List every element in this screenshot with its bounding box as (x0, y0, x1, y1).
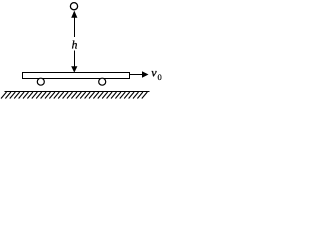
height arrow upper head (71, 11, 77, 18)
ground hatching (1, 92, 147, 99)
wheel 2 (99, 78, 106, 85)
ground line (5, 91, 150, 93)
svg-text:v: v (151, 66, 157, 80)
ball (70, 3, 77, 10)
wheel 1 (37, 78, 44, 85)
v0 arrow shaft (130, 74, 143, 76)
height arrow lower head (71, 66, 77, 72)
v0 arrow head (142, 71, 149, 77)
height arrow lower segment (74, 51, 76, 68)
plank (23, 73, 130, 79)
svg-text:h: h (72, 39, 78, 51)
height arrow upper segment (74, 17, 76, 38)
svg-text:0: 0 (158, 72, 162, 82)
